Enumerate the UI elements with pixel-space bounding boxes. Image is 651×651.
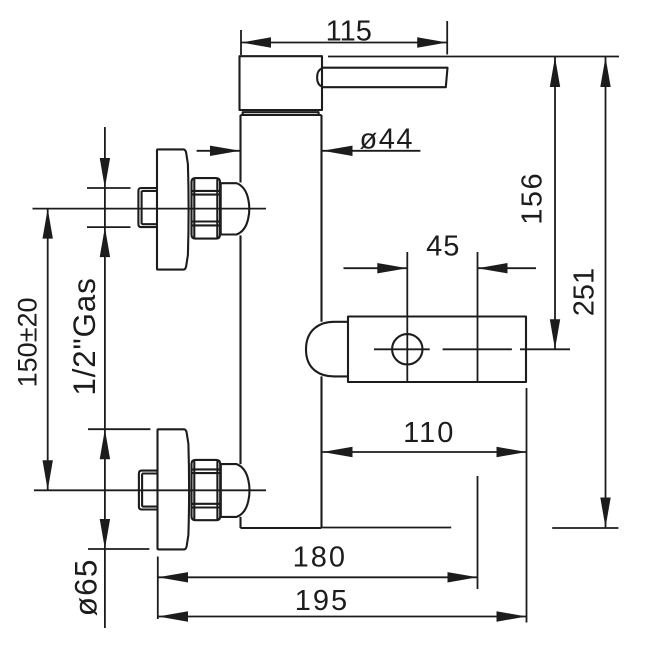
dim 156 top arrow: [550, 57, 560, 87]
dim o65 up arrow: [100, 429, 110, 459]
dim 150±20 line: [47, 209, 49, 491]
body top cap: [240, 56, 323, 110]
lower flange: [158, 429, 190, 549]
lower fitting centerline: [34, 489, 266, 491]
upper flange: [157, 149, 189, 269]
dim 156 bottom arrow: [550, 319, 560, 349]
upper dome cap: [221, 183, 250, 234]
spout elbow cap: [306, 322, 348, 377]
dim 156 line: [554, 57, 556, 349]
tolerance up arrow: [100, 227, 110, 257]
tolerance tick upper: [87, 187, 131, 189]
faucet body tube: [241, 115, 322, 528]
svg-text:1/2"Gas: 1/2"Gas: [66, 277, 102, 395]
dim 150±20 bottom arrow: [43, 460, 53, 490]
svg-text:110: 110: [403, 417, 455, 449]
upper hex nut: [192, 178, 221, 239]
dim 45 line: [344, 252, 537, 589]
dim 195 left arrow: [158, 611, 188, 621]
spout screw hole: [392, 334, 422, 364]
dim 45 left arrow: [377, 263, 407, 273]
body bottom extension line: [322, 527, 451, 529]
dim o65 tick upper: [88, 428, 150, 430]
svg-text:251: 251: [569, 268, 601, 316]
dim o65 down arrow: [100, 519, 110, 549]
spout horizontal centerline: [374, 348, 570, 350]
svg-text:156: 156: [517, 172, 549, 225]
svg-text:ø44: ø44: [360, 124, 414, 156]
dim 115 right arrow: [417, 37, 447, 47]
dim o44 left arrow: [210, 146, 240, 156]
cap top extension line: [328, 56, 619, 58]
dim 180/195 left extension line: [157, 557, 159, 620]
dim 150±20 top arrow: [43, 209, 53, 239]
tolerance tick lower: [87, 226, 131, 228]
spout hole vertical centerline: [406, 252, 408, 382]
thread/flange shared dimension line: [104, 127, 106, 628]
lower pipe nipple: [139, 471, 158, 510]
dim 251 bottom extension tick: [552, 527, 618, 529]
dim o44 line: [197, 150, 421, 152]
dim 251 top arrow: [600, 57, 610, 87]
upper fitting centerline: [33, 208, 267, 210]
dim 110 right extension line: [526, 388, 528, 623]
tolerance down arrow: [100, 158, 110, 188]
svg-text:115: 115: [326, 15, 372, 47]
svg-text:45: 45: [426, 230, 460, 262]
dim 115 left arrow: [241, 37, 271, 47]
lower hex nut: [192, 460, 221, 520]
dim 110 left arrow: [323, 447, 353, 457]
dim o65 tick lower: [88, 548, 149, 550]
dim 115 line: [241, 21, 447, 55]
dim 195 line: [158, 616, 527, 618]
dim 180 left arrow: [158, 572, 188, 582]
dim 45 right arrow: [478, 263, 508, 273]
spout block: [348, 317, 526, 383]
dim 180 right arrow: [448, 572, 478, 582]
dim 110 line: [323, 451, 527, 453]
dim o44 right arrow: [323, 146, 353, 156]
upper pipe nipple: [138, 188, 157, 227]
dim 110 right arrow: [497, 447, 527, 457]
lower dome cap: [221, 464, 250, 517]
dim 251 line: [605, 57, 607, 528]
dim 180 line: [158, 576, 478, 578]
svg-text:ø65: ø65: [67, 558, 103, 616]
svg-text:180: 180: [293, 541, 347, 573]
dim 195 right arrow: [497, 611, 527, 621]
cap/body neck band: [243, 112, 319, 115]
dim 251 bottom arrow: [600, 498, 610, 528]
svg-text:150±20: 150±20: [13, 297, 43, 387]
svg-text:195: 195: [295, 585, 349, 617]
lever handle: [317, 68, 447, 88]
